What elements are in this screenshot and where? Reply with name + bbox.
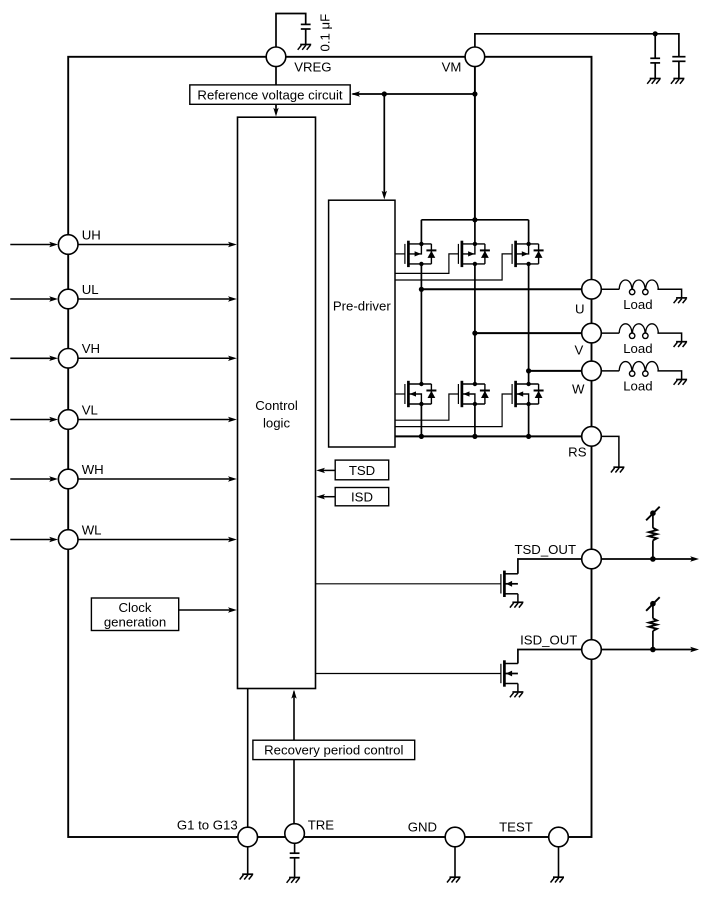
wire source Q6 to RS rail: [528, 404, 530, 436]
wire RS rail: [395, 435, 582, 437]
transistor Q5 (low-side MOSFET): [457, 384, 459, 404]
wire R1 to supply stub: [652, 513, 654, 528]
svg-text:UL: UL: [82, 282, 99, 297]
wire U pin to load: [601, 288, 619, 290]
pin VL: [58, 410, 78, 430]
svg-text:TEST: TEST: [499, 820, 533, 835]
pin TRE: [285, 824, 305, 844]
svg-text:TSD_OUT: TSD_OUT: [514, 542, 576, 557]
node at VM column: [472, 91, 477, 96]
wire gate Q2: [395, 254, 458, 274]
pin ISD_OUT: [582, 640, 602, 660]
wire U rail: [421, 288, 582, 290]
wire drain feed Q3: [528, 220, 530, 244]
ground (RS): [613, 466, 624, 468]
node ISD_OUT pull-up junction: [650, 647, 656, 653]
wire gate Q3: [395, 254, 512, 280]
svg-text:Load: Load: [623, 341, 652, 356]
wire W rail: [529, 370, 582, 372]
wire GND pin to ground: [454, 847, 456, 877]
ground (G1 to G13): [242, 873, 253, 875]
wire VL to control logic: [78, 419, 232, 421]
node W tap: [526, 368, 531, 373]
pin VH: [58, 349, 78, 369]
pin G1 to G13: [238, 827, 258, 847]
wire V rail: [475, 332, 582, 334]
svg-text:Pre-driver: Pre-driver: [333, 299, 391, 314]
svg-text:WH: WH: [82, 462, 104, 477]
ground (GND): [450, 876, 461, 878]
inductor Load (W phase): [619, 362, 658, 377]
wire ISD_OUT external: [601, 649, 694, 651]
ground (load U): [676, 297, 687, 299]
wire C1 to ground: [305, 29, 307, 44]
pin UL: [58, 289, 78, 309]
input stub UL: [10, 298, 51, 300]
wire source Q7 to ground: [517, 594, 519, 602]
supply stub node (TSD_OUT): [650, 510, 656, 516]
svg-text:VL: VL: [82, 402, 98, 417]
wire VREG down to reference voltage circuit: [275, 64, 277, 86]
wire recovery period control to TRE: [293, 760, 295, 824]
svg-text:VH: VH: [82, 341, 100, 356]
pin VM: [465, 47, 485, 67]
wire pre-driver supply feed: [383, 94, 385, 196]
ground (load W): [676, 379, 687, 381]
wire phase column Q1/Q4: [420, 264, 422, 384]
block: Control logic: [238, 117, 316, 688]
inductor Load (V phase): [619, 324, 658, 339]
ground (VREG capacitor): [300, 44, 311, 46]
wire W pin to load: [601, 370, 619, 372]
transistor Q6 (low-side MOSFET): [511, 384, 513, 404]
svg-text:VM: VM: [442, 60, 462, 75]
pin TEST: [549, 827, 569, 847]
svg-text:Recovery period control: Recovery period control: [264, 743, 403, 758]
pin VREG: [266, 47, 286, 67]
svg-text:GND: GND: [408, 820, 437, 835]
arrow into reference voltage circuit: [351, 91, 360, 96]
wire load to ground (V): [657, 333, 681, 341]
box: Recovery period control: [253, 740, 415, 759]
wire VM up and right to capacitors: [475, 34, 679, 57]
svg-text:RS: RS: [568, 444, 587, 459]
svg-text:Reference voltage circuit: Reference voltage circuit: [197, 87, 342, 102]
svg-text:V: V: [575, 343, 584, 358]
wire phase column Q2/Q5: [474, 264, 476, 384]
wire source Q4 to RS rail: [420, 404, 422, 436]
transistor Q7 (TSD_OUT open drain): [500, 574, 502, 593]
wire VH to control logic: [78, 357, 232, 359]
wire TRE pin to capacitor: [294, 843, 296, 853]
resistor R2 (ISD_OUT pull-up): [649, 618, 657, 631]
node VM / top rail: [472, 217, 477, 222]
box: ISD: [335, 488, 389, 506]
wire load to ground (U): [657, 289, 681, 297]
wire UL to control logic: [78, 298, 232, 300]
node at pre-driver branch: [382, 91, 387, 96]
wire gate Q7 from control logic: [316, 583, 501, 585]
capacitor C2: [650, 57, 660, 59]
node RS rail junction: [419, 434, 424, 439]
wire UH to control logic: [78, 244, 232, 246]
pin GND: [445, 827, 465, 847]
pin UH: [58, 235, 78, 255]
resistor R1 (TSD_OUT pull-up): [649, 528, 657, 541]
wire gate Q4: [395, 393, 405, 395]
svg-text:U: U: [575, 302, 585, 317]
capacitor C3: [672, 56, 685, 58]
ground (TEST): [553, 876, 564, 878]
pin WH: [58, 469, 78, 489]
transistor Q8 (ISD_OUT open drain): [500, 664, 502, 683]
IC outline border: [68, 57, 591, 837]
wire source Q8 to ground: [517, 684, 519, 692]
inductor Load (U phase): [619, 280, 658, 295]
transistor Q2 (high-side MOSFET): [457, 244, 459, 264]
svg-text:ISD: ISD: [351, 489, 373, 504]
input stub WL: [10, 539, 51, 541]
transistor Q3 (high-side MOSFET): [511, 244, 513, 264]
wire WL to control logic: [78, 539, 232, 541]
svg-text:Load: Load: [623, 297, 652, 312]
ground (TRE): [289, 877, 300, 879]
wire to capacitor C2: [654, 34, 656, 59]
input stub WH: [10, 478, 51, 480]
node TSD_OUT pull-up junction: [650, 556, 656, 562]
ground (Q8): [512, 691, 523, 693]
capacitor C4 (TRE): [290, 852, 300, 854]
wire phase column Q3/Q6: [528, 264, 530, 384]
wire drain feed Q1: [420, 220, 422, 244]
svg-text:ISD_OUT: ISD_OUT: [520, 632, 577, 647]
wire TEST pin to ground: [558, 847, 560, 877]
svg-text:generation: generation: [104, 614, 166, 629]
wire G1 pin to ground: [247, 847, 249, 874]
wire C2 to ground: [654, 63, 656, 78]
wire ISD_OUT internal: [518, 650, 582, 664]
box: TSD: [335, 460, 389, 480]
capacitor C1 0.1uF: [301, 23, 311, 25]
wire gate Q6: [395, 394, 512, 427]
wire WH to control logic: [78, 478, 232, 480]
wire C3 to ground: [678, 61, 680, 78]
pin W: [582, 361, 602, 381]
node RS rail junction: [472, 434, 477, 439]
ground (C2): [650, 78, 661, 80]
svg-text:VREG: VREG: [294, 60, 331, 75]
wire top rail (VM to high-side drains): [421, 219, 528, 221]
transistor Q1 (high-side MOSFET): [404, 244, 406, 264]
svg-text:logic: logic: [263, 416, 291, 431]
pin U: [582, 280, 602, 300]
ground (load V): [676, 341, 687, 343]
wire VM internal feed: [474, 64, 476, 220]
pin RS: [582, 427, 602, 447]
ground (Q7): [512, 601, 523, 603]
wire TSD to control logic: [321, 469, 335, 471]
wire gate Q1: [395, 253, 405, 255]
pin WL: [58, 530, 78, 550]
svg-text:Load: Load: [623, 379, 652, 394]
wire drain feed Q2: [474, 220, 476, 244]
node VM cap junction: [653, 31, 658, 36]
svg-text:G1 to G13: G1 to G13: [177, 817, 238, 832]
svg-text:Control: Control: [255, 398, 298, 413]
wire gate Q5: [395, 394, 458, 420]
wire gate Q8 from control logic: [316, 673, 501, 675]
wire ISD to control logic: [321, 496, 335, 498]
pin TSD_OUT: [582, 549, 602, 569]
arrow reference voltage to control logic: [275, 104, 277, 113]
wire TSD_OUT internal: [518, 559, 582, 574]
arrow into pre-driver: [382, 191, 387, 200]
wire R2 to supply stub: [652, 604, 654, 619]
wire G1-G13 bus: [247, 689, 249, 828]
box: Clock generation: [91, 598, 178, 631]
node V tap: [472, 331, 477, 336]
block: Pre-driver: [329, 200, 395, 447]
wire junction to resistor R2: [652, 631, 654, 650]
input stub VL: [10, 419, 51, 421]
svg-text:W: W: [572, 382, 585, 397]
transistor Q4 (low-side MOSFET): [404, 384, 406, 404]
svg-text:WL: WL: [82, 522, 102, 537]
wire source Q5 to RS rail: [474, 404, 476, 436]
wire V pin to load: [601, 332, 619, 334]
ground (C3): [673, 78, 684, 80]
node U tap: [419, 287, 424, 292]
svg-text:TSD: TSD: [349, 463, 375, 478]
wire TSD_OUT external: [601, 558, 694, 560]
node RS rail junction: [526, 434, 531, 439]
supply stub node (ISD_OUT): [650, 601, 656, 607]
svg-text:Clock: Clock: [119, 600, 152, 615]
input stub UH: [10, 244, 51, 246]
wire VREG to bypass capacitor: [276, 14, 306, 50]
wire RS to ground: [601, 436, 619, 467]
svg-text:TRE: TRE: [308, 817, 335, 832]
wire reference voltage feed from VM: [353, 93, 475, 95]
pin V: [582, 323, 602, 343]
box: Reference voltage circuit: [190, 85, 350, 104]
svg-text:UH: UH: [82, 227, 101, 242]
input stub VH: [10, 357, 51, 359]
wire load to ground (W): [657, 371, 681, 379]
wire C4 to ground: [294, 858, 296, 878]
wire recovery period control to control logic: [293, 692, 295, 741]
svg-text:0.1 μF: 0.1 μF: [318, 14, 333, 52]
wire clock generation to control logic: [179, 609, 232, 611]
wire junction to resistor R1: [652, 540, 654, 559]
